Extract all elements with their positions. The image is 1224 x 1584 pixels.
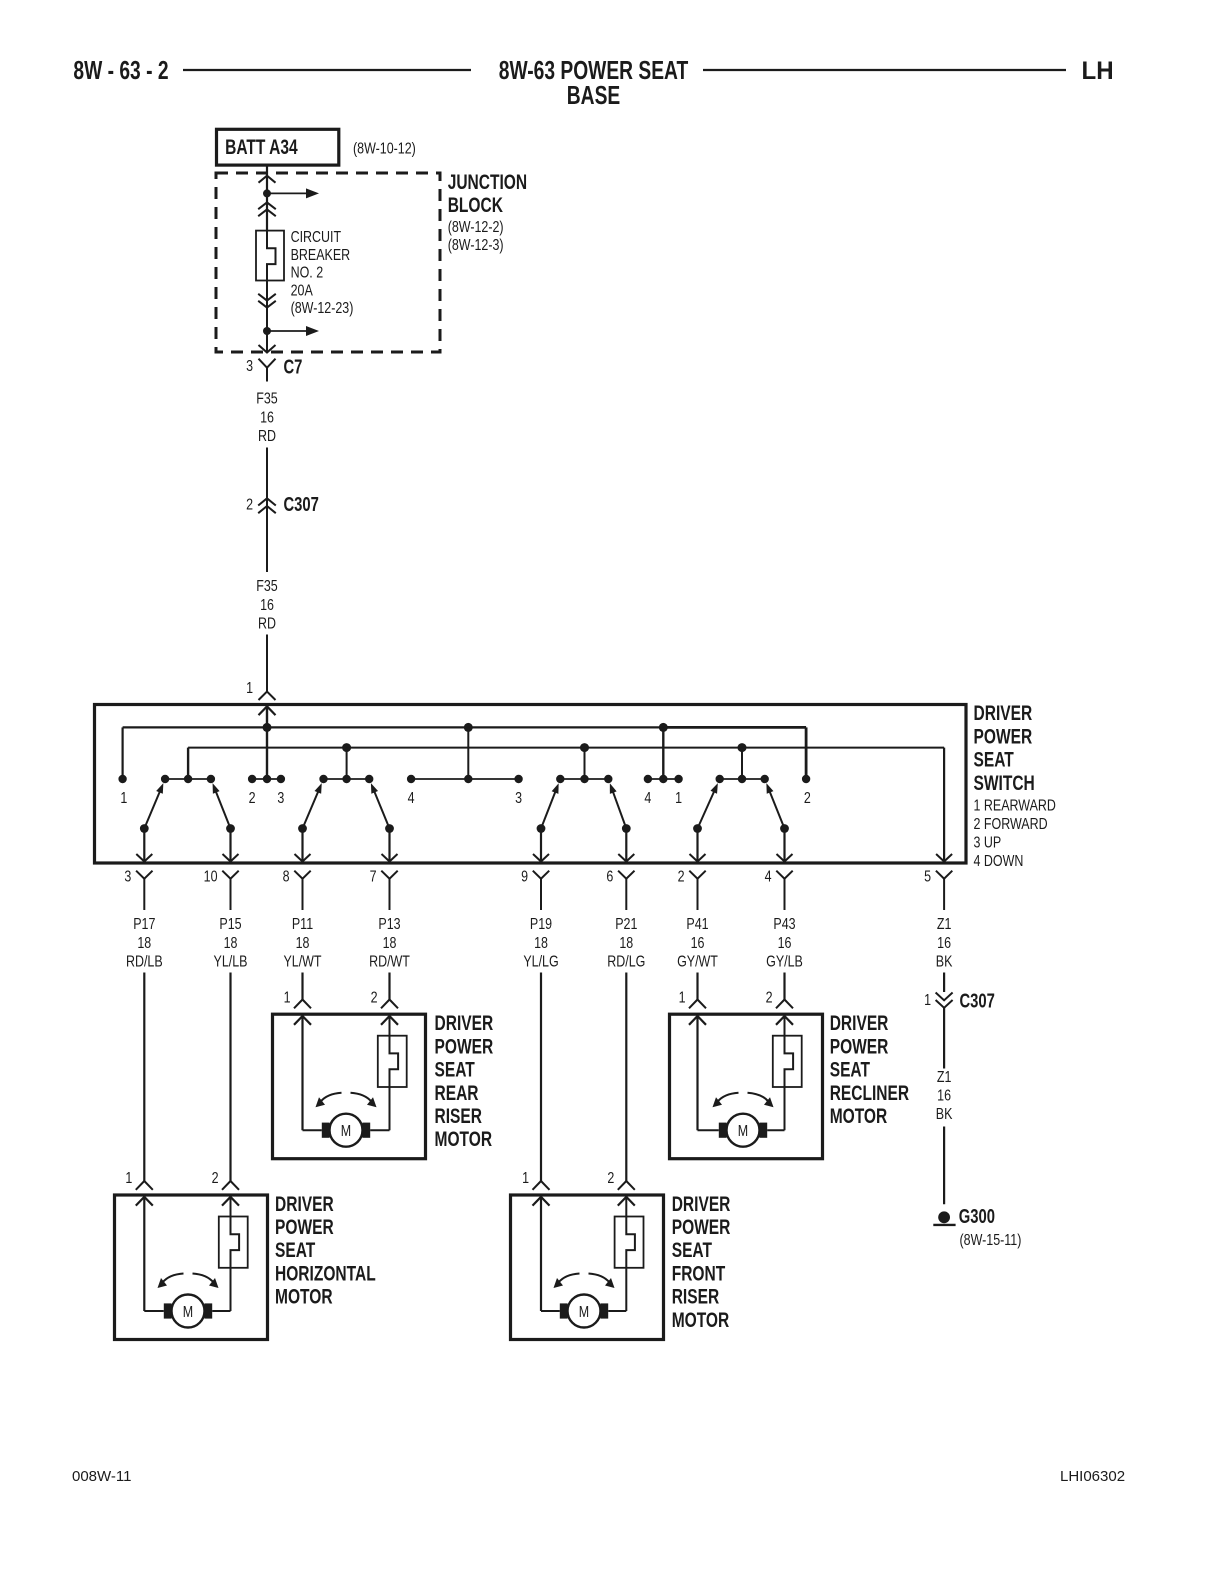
svg-text:POWER: POWER <box>275 1215 334 1239</box>
svg-text:DRIVER: DRIVER <box>672 1191 731 1215</box>
svg-text:(8W-10-12): (8W-10-12) <box>353 140 416 158</box>
svg-text:Z1: Z1 <box>937 916 952 934</box>
svg-text:RD/WT: RD/WT <box>369 953 410 971</box>
svg-text:RISER: RISER <box>435 1104 482 1128</box>
svg-text:DRIVER: DRIVER <box>830 1011 889 1035</box>
svg-text:JUNCTION: JUNCTION <box>448 170 527 194</box>
svg-text:RD: RD <box>258 428 276 446</box>
svg-text:BREAKER: BREAKER <box>291 246 351 264</box>
svg-text:GY/WT: GY/WT <box>677 953 718 971</box>
svg-text:REAR: REAR <box>435 1080 479 1104</box>
svg-text:P41: P41 <box>686 916 708 934</box>
svg-text:P13: P13 <box>378 916 400 934</box>
svg-text:F35: F35 <box>256 390 278 408</box>
svg-text:BK: BK <box>936 953 953 971</box>
svg-text:2: 2 <box>371 989 378 1007</box>
svg-text:16: 16 <box>260 596 274 614</box>
svg-text:(8W-12-23): (8W-12-23) <box>291 300 354 318</box>
svg-text:6: 6 <box>606 868 613 886</box>
svg-text:POWER: POWER <box>435 1034 494 1058</box>
svg-text:4 DOWN: 4 DOWN <box>974 853 1024 871</box>
svg-text:18: 18 <box>224 934 238 952</box>
svg-text:M: M <box>341 1123 351 1141</box>
svg-text:RD/LG: RD/LG <box>607 953 645 971</box>
svg-text:10: 10 <box>204 868 218 886</box>
svg-text:GY/LB: GY/LB <box>766 953 803 971</box>
svg-text:MOTOR: MOTOR <box>275 1284 333 1308</box>
svg-text:16: 16 <box>778 934 792 952</box>
svg-text:7: 7 <box>370 868 377 886</box>
svg-text:1: 1 <box>675 790 682 808</box>
svg-text:2: 2 <box>804 790 811 808</box>
svg-text:2: 2 <box>766 989 773 1007</box>
svg-text:16: 16 <box>260 409 274 427</box>
svg-text:18: 18 <box>296 934 310 952</box>
svg-text:RECLINER: RECLINER <box>830 1080 909 1104</box>
svg-text:C307: C307 <box>284 493 319 516</box>
svg-text:DRIVER: DRIVER <box>275 1191 334 1215</box>
svg-text:FRONT: FRONT <box>672 1261 726 1285</box>
svg-text:YL/WT: YL/WT <box>283 953 321 971</box>
svg-text:4: 4 <box>765 868 772 886</box>
svg-text:2 FORWARD: 2 FORWARD <box>974 816 1048 834</box>
svg-text:YL/LG: YL/LG <box>523 953 558 971</box>
svg-text:LHI06302: LHI06302 <box>1060 1468 1125 1485</box>
svg-text:POWER: POWER <box>672 1215 731 1239</box>
svg-text:5: 5 <box>924 868 931 886</box>
svg-text:BLOCK: BLOCK <box>448 193 504 217</box>
svg-text:M: M <box>738 1123 748 1141</box>
svg-text:1: 1 <box>120 790 127 808</box>
svg-text:SEAT: SEAT <box>830 1057 871 1081</box>
svg-text:SEAT: SEAT <box>974 747 1015 771</box>
svg-text:Z1: Z1 <box>937 1069 952 1087</box>
svg-text:(8W-12-2): (8W-12-2) <box>448 219 504 237</box>
svg-text:2: 2 <box>212 1170 219 1188</box>
svg-text:P21: P21 <box>615 916 637 934</box>
svg-text:P17: P17 <box>133 916 155 934</box>
svg-text:9: 9 <box>521 868 528 886</box>
svg-text:1 REARWARD: 1 REARWARD <box>974 797 1056 815</box>
svg-text:M: M <box>183 1303 193 1321</box>
svg-text:SWITCH: SWITCH <box>974 771 1035 795</box>
svg-text:(8W-15-11): (8W-15-11) <box>960 1232 1022 1250</box>
svg-text:YL/LB: YL/LB <box>214 953 248 971</box>
svg-text:4: 4 <box>408 790 415 808</box>
svg-text:RISER: RISER <box>672 1284 719 1308</box>
svg-text:HORIZONTAL: HORIZONTAL <box>275 1261 376 1285</box>
svg-text:BATT A34: BATT A34 <box>225 135 298 159</box>
svg-text:1: 1 <box>522 1170 529 1188</box>
svg-text:1: 1 <box>679 989 686 1007</box>
svg-text:P19: P19 <box>530 916 552 934</box>
svg-text:BK: BK <box>936 1106 953 1124</box>
svg-text:F35: F35 <box>256 578 278 596</box>
svg-text:C7: C7 <box>284 356 303 379</box>
svg-text:M: M <box>579 1303 589 1321</box>
svg-text:P11: P11 <box>292 916 313 934</box>
svg-text:(8W-12-3): (8W-12-3) <box>448 237 504 255</box>
svg-text:DRIVER: DRIVER <box>974 701 1033 725</box>
svg-text:C307: C307 <box>960 990 995 1013</box>
svg-text:16: 16 <box>937 934 951 952</box>
svg-text:3: 3 <box>246 358 253 376</box>
svg-text:18: 18 <box>619 934 633 952</box>
svg-text:008W-11: 008W-11 <box>72 1468 131 1485</box>
svg-text:CIRCUIT: CIRCUIT <box>291 229 342 247</box>
svg-text:SEAT: SEAT <box>275 1238 316 1262</box>
svg-text:2: 2 <box>678 868 685 886</box>
svg-text:3: 3 <box>124 868 131 886</box>
svg-text:16: 16 <box>691 934 705 952</box>
svg-text:18: 18 <box>137 934 151 952</box>
svg-text:MOTOR: MOTOR <box>830 1104 888 1128</box>
svg-text:P15: P15 <box>219 916 241 934</box>
svg-text:20A: 20A <box>291 282 314 300</box>
svg-text:8: 8 <box>283 868 290 886</box>
svg-text:SEAT: SEAT <box>435 1057 476 1081</box>
svg-text:1: 1 <box>284 989 291 1007</box>
svg-text:3: 3 <box>277 790 284 808</box>
svg-text:2: 2 <box>607 1170 614 1188</box>
svg-text:POWER: POWER <box>830 1034 889 1058</box>
svg-text:18: 18 <box>383 934 397 952</box>
svg-text:16: 16 <box>937 1087 951 1105</box>
svg-text:3 UP: 3 UP <box>974 834 1002 852</box>
svg-text:18: 18 <box>534 934 548 952</box>
svg-text:3: 3 <box>515 790 522 808</box>
svg-text:DRIVER: DRIVER <box>435 1011 494 1035</box>
svg-text:2: 2 <box>249 790 256 808</box>
svg-text:8W - 63 - 2: 8W - 63 - 2 <box>73 55 168 85</box>
svg-text:MOTOR: MOTOR <box>672 1307 730 1331</box>
svg-text:RD/LB: RD/LB <box>126 953 163 971</box>
svg-text:2: 2 <box>246 496 253 514</box>
svg-text:LH: LH <box>1082 58 1114 85</box>
svg-text:SEAT: SEAT <box>672 1238 713 1262</box>
svg-text:4: 4 <box>644 790 651 808</box>
svg-text:BASE: BASE <box>567 80 620 110</box>
svg-text:MOTOR: MOTOR <box>435 1127 493 1151</box>
svg-text:POWER: POWER <box>974 724 1033 748</box>
svg-text:1: 1 <box>125 1170 132 1188</box>
svg-text:1: 1 <box>924 992 931 1010</box>
svg-text:P43: P43 <box>773 916 795 934</box>
svg-text:RD: RD <box>258 615 276 633</box>
svg-text:1: 1 <box>246 680 253 698</box>
svg-text:NO. 2: NO. 2 <box>291 264 324 282</box>
svg-text:G300: G300 <box>959 1205 995 1228</box>
